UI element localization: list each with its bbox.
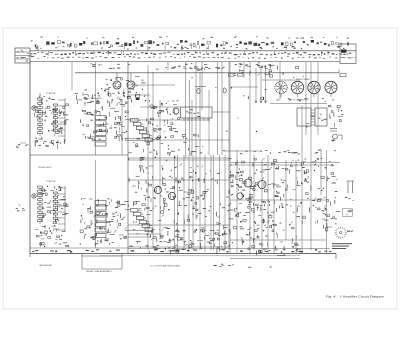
junction dots bbox=[136, 76, 327, 248]
relay block K1 bbox=[297, 108, 327, 126]
wire bus: vertical rails, right field bbox=[230, 62, 327, 254]
svg-text:Y2 ATTEN: Y2 ATTEN bbox=[46, 180, 56, 183]
parts-list strip baseline wire bbox=[30, 50, 356, 52]
parts-list strip: secondary blob fills bbox=[36, 46, 345, 50]
transistor Q14 bbox=[237, 193, 243, 199]
wire y=255.8 below-bus line bbox=[100, 255, 300, 257]
wire: horizontal interconnects bbox=[30, 80, 330, 259]
schematic border: bottom bus bbox=[30, 253, 336, 255]
front-panel control S3 bbox=[308, 81, 320, 93]
svg-text:FRONT PANEL: FRONT PANEL bbox=[296, 78, 311, 81]
schematic border: left bbox=[29, 62, 31, 254]
strip left index table bbox=[15, 48, 32, 63]
label dash row y=151 (centre field) bbox=[149, 150, 335, 155]
small box on rail x=326.5 bbox=[325, 228, 328, 232]
lower centre cluster (Y2 pre-amp) bbox=[129, 163, 203, 225]
parts-list strip: connector ticks bbox=[37, 46, 328, 56]
svg-text:Y AMPLIFIER BOARD: Y AMPLIFIER BOARD bbox=[39, 264, 53, 267]
output stage cluster (right-centre) bbox=[228, 158, 301, 255]
svg-text:TRIGGER SELECT: TRIGGER SELECT bbox=[38, 167, 53, 169]
label row above centre field bbox=[204, 63, 207, 66]
section divider (between Y1 and Y2 input stages) bbox=[30, 154, 128, 156]
wire y=151 segment bbox=[225, 150, 262, 152]
delay-driver block U2 bbox=[181, 107, 213, 121]
transistor Q6 (long-tailed pair, right) bbox=[127, 81, 135, 89]
bottom bus end stub bbox=[335, 254, 337, 260]
extra bottom-centre cluster bbox=[129, 229, 182, 255]
svg-text:Fig. 4 Y Amplifier Circuit: Fig. 4 Y Amplifier Circuit Diagram bbox=[326, 294, 384, 298]
parts-list strip: sparse top specks bbox=[40, 36, 348, 39]
capacitor pair C64/C65 (far right) bbox=[345, 181, 354, 201]
note block (bottom right of schematic) bbox=[332, 243, 352, 249]
transistor Q5 (long-tailed pair, left) bbox=[113, 81, 121, 89]
resistor cascade (Y2 range switch) bbox=[125, 209, 155, 233]
stage cluster B1 (upper mid-left) bbox=[81, 98, 129, 142]
margin note (left, upper) bbox=[16, 143, 29, 148]
long-tailed pair support parts bbox=[104, 73, 145, 107]
rotary switch side label bbox=[347, 231, 350, 232]
wire y=248.5 long bottom feed bbox=[128, 248, 330, 250]
rotary switch S5 (GAIN ADJ, ticked ring) bbox=[327, 227, 347, 239]
svg-text:Y1 Y2 CONTROLS: Y1 Y2 CONTROLS bbox=[290, 99, 307, 101]
wire x=95.5 (mid-left feed) bbox=[95, 62, 97, 155]
wire x=95.5 lower section bbox=[95, 160, 97, 248]
wire stub x=72 bbox=[71, 62, 73, 90]
schematic border: top bbox=[30, 61, 340, 63]
lower centre cluster 2 bbox=[145, 228, 226, 254]
right column parts near relay bbox=[328, 105, 343, 127]
wire y=162.5 segment (right) bbox=[230, 162, 340, 164]
bottom bus component dashes bbox=[32, 249, 331, 253]
transistor Q7 bbox=[173, 108, 179, 114]
label: trigger pick-off bbox=[259, 65, 260, 66]
attenuator ladder A2 (Y2 input) bbox=[35, 186, 68, 247]
attenuator ladder A1 (Y1 input) bbox=[34, 93, 68, 149]
input-section boundary wire bbox=[127, 62, 129, 254]
input connector J2 bbox=[32, 194, 36, 198]
svg-text:TO Y OUTPUT AMPLIFIER BOAR: TO Y OUTPUT AMPLIFIER BOARD bbox=[150, 265, 181, 268]
centre cluster (driver stage) bbox=[146, 100, 179, 132]
mid-right column parts bbox=[201, 165, 234, 247]
svg-text:DELAY LINE ASSEMBLY: DELAY LINE ASSEMBLY bbox=[86, 270, 113, 273]
front-panel control S2 bbox=[291, 81, 303, 93]
wire y=234 segment bbox=[128, 233, 162, 235]
wire y=237 segment bbox=[128, 236, 150, 238]
component blob near x=137,y=97 bbox=[135, 95, 139, 101]
bottom annotation marks (right) bbox=[214, 254, 286, 268]
label dashes y=64 (right half) bbox=[235, 63, 260, 66]
transistor Q12 bbox=[244, 179, 252, 187]
transistor Q13 bbox=[258, 181, 266, 189]
wire bus: vertical rails, centre field bbox=[148, 62, 229, 252]
transistor Q8 bbox=[154, 186, 161, 193]
terminal box on HT rail end bbox=[340, 73, 346, 77]
CAL terminal marks bbox=[330, 129, 342, 142]
stage cluster B2 (lower mid-left) bbox=[80, 198, 129, 246]
top cluster above output stage bbox=[233, 63, 298, 78]
front-panel control S1 (VOLTS/DIV, scalloped) bbox=[275, 81, 287, 93]
input connector J1 bbox=[32, 106, 36, 110]
parts-list strip: lower dash row bbox=[31, 56, 351, 59]
bias resistor chain R-ladder (upper) bbox=[95, 112, 106, 147]
front-panel control S4 bbox=[325, 81, 337, 93]
parts left of pair bbox=[75, 88, 103, 104]
switching cluster under driver bbox=[128, 134, 199, 160]
bias resistor chain R-ladder (lower) bbox=[95, 201, 106, 238]
resistors R40/R41 on HT rail bbox=[229, 74, 244, 77]
delay line DL1 (external block) bbox=[82, 254, 122, 270]
parts-list strip: middle dash row bbox=[31, 52, 352, 56]
upper label row under border (mid-left) bbox=[112, 67, 115, 70]
wire x=122 (mid-left feed 2) bbox=[121, 100, 123, 155]
right column cluster (CAL / supply) bbox=[300, 158, 340, 229]
strip right closure box bbox=[340, 44, 356, 64]
transistor Q9 bbox=[168, 192, 175, 199]
wire: +HT rail (horizontal, y=73) bbox=[75, 72, 339, 74]
wire y=158 segment (centre) bbox=[128, 157, 230, 159]
wire: HT rail end hook bbox=[338, 70, 340, 73]
capacitor C21 bbox=[195, 87, 206, 94]
margin note (left, lower) bbox=[16, 205, 25, 212]
dashed note box (right) bbox=[343, 209, 353, 217]
parts-list strip: upper row of component blobs bbox=[31, 40, 349, 47]
knob caption row bbox=[322, 97, 324, 100]
cluster between rails (255-280, 85-100) bbox=[248, 89, 267, 100]
svg-text:1st Y AMPLIFIER: 1st Y AMPLIFIER bbox=[86, 97, 102, 100]
bottom-left border tick bbox=[29, 254, 31, 258]
trigger pick-off arrowheads bbox=[255, 101, 267, 104]
svg-text:Y1 ATTEN: Y1 ATTEN bbox=[46, 92, 56, 95]
label: TP annotations bbox=[183, 67, 186, 70]
capacitor C22 bbox=[223, 88, 226, 93]
resistor cascade (Y1 range switch) bbox=[125, 119, 155, 143]
